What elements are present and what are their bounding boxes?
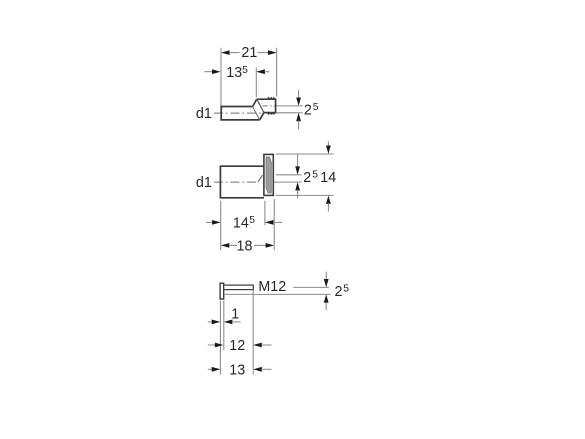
down arrow (296, 90, 301, 106)
up arrow 2.5 (324, 294, 329, 310)
body centerline (214, 181, 258, 183)
svg-text:M12: M12 (258, 279, 286, 295)
dimension 14.5 (206, 215, 282, 232)
bottom ext line right (273, 199, 275, 250)
svg-text:d1: d1 (196, 175, 212, 191)
dimension 13.5 (204, 65, 269, 81)
thread serration bottom (267, 113, 275, 115)
stub outline (257, 99, 276, 112)
2.5 ext line top (rod axis) (293, 286, 329, 288)
extension line right (21) (276, 48, 278, 97)
dimension 21 (221, 45, 277, 61)
svg-text:12: 12 (229, 338, 245, 354)
svg-text:1: 1 (231, 306, 239, 322)
flange outline (264, 154, 273, 195)
thread serration top (267, 97, 275, 99)
svg-text:21: 21 (241, 45, 257, 61)
tube outline (221, 107, 259, 120)
svg-text:18: 18 (237, 238, 253, 254)
2.5 ext line bottom (225, 293, 331, 295)
miter line 2 (257, 99, 264, 112)
body outline (220, 166, 264, 198)
up arrow 2.5 (295, 182, 300, 198)
14 ext line bottom (276, 194, 334, 196)
svg-text:d1: d1 (196, 106, 212, 122)
svg-text:14: 14 (233, 216, 249, 232)
svg-text:5: 5 (343, 283, 349, 294)
miter line 1 (253, 107, 260, 120)
upper diagonal (253, 99, 257, 106)
extension line left (21) (220, 48, 222, 106)
lower diagonal (260, 113, 264, 120)
ext line head right (223, 301, 225, 351)
extension line right (13.5) (255, 68, 257, 98)
ext line head left (219, 301, 221, 375)
rod shaft (224, 285, 254, 290)
up arrow (296, 113, 301, 130)
centerline jog (258, 175, 263, 182)
tube centerline d1 (214, 112, 262, 114)
label 2.5 14 (middle view) (303, 170, 336, 187)
svg-text:2: 2 (335, 284, 343, 300)
svg-text:5: 5 (242, 65, 248, 76)
svg-text:2: 2 (303, 170, 311, 186)
2.5 ext line bottom (tube axis) (276, 112, 303, 114)
flange cone hatch (266, 157, 271, 193)
stub centerline (263, 105, 276, 107)
svg-text:5: 5 (313, 102, 319, 113)
rod head (220, 283, 224, 299)
14 ext line top (276, 153, 334, 155)
down arrow 2.5 (295, 154, 300, 175)
dimension 18 (221, 238, 275, 254)
dimension 1 (208, 306, 241, 324)
14 down arrow (326, 141, 331, 154)
2.5 ext line top (flange axis) (276, 174, 302, 176)
2.5 ext line top (stub axis) (276, 105, 303, 107)
label 2.5 (top view) (304, 102, 319, 119)
bottom ext line left (220, 201, 222, 251)
down arrow 2.5 (324, 272, 329, 288)
svg-text:14: 14 (320, 170, 336, 186)
ext line rod end (252, 291, 254, 375)
svg-text:2: 2 (304, 103, 312, 119)
svg-text:13: 13 (226, 65, 242, 81)
bottom ext line mid (264, 201, 266, 225)
2.5 ext line bottom (body axis) (274, 181, 302, 183)
svg-text:5: 5 (249, 215, 255, 226)
svg-text:13: 13 (229, 362, 245, 378)
14 up arrow (326, 196, 331, 212)
label 2.5 (bottom view) (335, 283, 350, 300)
dimension 12 (208, 338, 272, 354)
dimension 13 (208, 362, 272, 378)
svg-text:5: 5 (312, 170, 318, 181)
